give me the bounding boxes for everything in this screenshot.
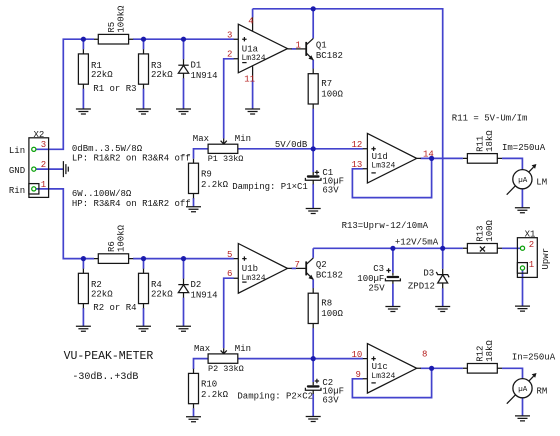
node junction U1d output xyxy=(429,156,434,161)
wire R7 bottom to 5V/0dB node xyxy=(312,109,314,149)
wire D3 bottom to ground xyxy=(442,288,444,306)
svg-text:HP: R3&R4 on R1&R2 off: HP: R3&R4 on R1&R2 off xyxy=(72,199,191,209)
wire P1 left terminal to R9 xyxy=(194,149,209,159)
svg-text:R6: R6 xyxy=(107,241,117,252)
capacitor C2 xyxy=(305,378,344,406)
node junction C3 +12V xyxy=(390,246,395,251)
svg-text:2: 2 xyxy=(227,50,232,60)
ground under R3 xyxy=(136,109,151,114)
svg-text:18kΩ: 18kΩ xyxy=(485,340,495,362)
svg-text:X2: X2 xyxy=(34,130,45,140)
svg-text:6: 6 xyxy=(227,269,232,279)
wire meter RM to ground xyxy=(522,398,524,416)
wire bottom rail from R6 to U1b pin5 xyxy=(133,258,234,260)
wire D1 top xyxy=(183,39,185,59)
ground under meter RM xyxy=(515,416,530,421)
svg-text:Lm324: Lm324 xyxy=(242,274,266,283)
wire U1a pin11 to ground xyxy=(252,80,254,109)
svg-text:Damping: P2×C2: Damping: P2×C2 xyxy=(237,391,313,401)
svg-text:U1a: U1a xyxy=(242,44,259,54)
svg-text:22kΩ: 22kΩ xyxy=(91,70,113,80)
op-amp U1a xyxy=(234,17,292,80)
wire R4 bottom to ground xyxy=(143,308,145,326)
svg-text:VU-PEAK-METER: VU-PEAK-METER xyxy=(64,350,154,363)
ground under D3 xyxy=(435,307,450,312)
ground under R9 xyxy=(186,207,201,212)
node junction top rail Q1 xyxy=(311,6,316,11)
svg-text:LM: LM xyxy=(536,177,547,187)
svg-text:RM: RM xyxy=(537,386,548,396)
svg-text:Rin: Rin xyxy=(9,186,25,196)
svg-text:Min: Min xyxy=(235,134,251,144)
node junction 5V/0dB xyxy=(311,146,316,151)
wire top rail from R5 to U1a pin3 xyxy=(133,38,234,40)
resistor R6 xyxy=(94,224,133,263)
resistor R10 xyxy=(189,369,229,409)
wire U1d pin13 feedback loop xyxy=(352,158,431,197)
ground under X1 xyxy=(515,306,530,311)
svg-text:R9: R9 xyxy=(201,169,212,179)
ground under D1 xyxy=(176,109,191,114)
node junction P2 output xyxy=(311,356,316,361)
ground under C2 xyxy=(306,417,321,422)
wire R13 to X1 pin2 xyxy=(502,247,523,249)
resistor R2 xyxy=(78,269,113,309)
svg-text:Upwr: Upwr xyxy=(541,248,551,270)
wire Rin from X2 pin1 down to bottom rail xyxy=(34,189,94,259)
wire D1 bottom to ground xyxy=(183,78,185,109)
svg-text:ZPD12: ZPD12 xyxy=(408,281,435,291)
wire R12 to meter RM xyxy=(502,368,523,379)
svg-text:R7: R7 xyxy=(321,79,332,89)
svg-text:9: 9 xyxy=(356,370,361,380)
svg-text:R2 or R4: R2 or R4 xyxy=(93,303,136,313)
wire U1c output to R12 xyxy=(421,367,463,369)
svg-text:+12V/5mA: +12V/5mA xyxy=(395,237,439,247)
wire R3 bottom to ground xyxy=(143,89,145,109)
wire C1 top xyxy=(312,149,314,172)
svg-text:Damping: P1×C1: Damping: P1×C1 xyxy=(232,182,308,192)
op-amp U1c xyxy=(363,344,421,394)
svg-text:BC182: BC182 xyxy=(316,270,343,280)
svg-text:P1 33kΩ: P1 33kΩ xyxy=(208,154,244,164)
svg-text:5V/0dB: 5V/0dB xyxy=(275,140,308,150)
node junction rail A R1 xyxy=(81,37,86,42)
wire meter LM to ground xyxy=(521,189,523,208)
resistor R8 xyxy=(308,288,343,328)
wire D2 top xyxy=(183,259,185,279)
svg-text:0dBm..3.5W/8Ω: 0dBm..3.5W/8Ω xyxy=(72,144,143,154)
svg-text:10: 10 xyxy=(352,350,363,360)
svg-text:R11 = 5V-Um/Im: R11 = 5V-Um/Im xyxy=(452,114,528,124)
wire D2 bottom to ground xyxy=(183,298,185,327)
node junction U1c output xyxy=(429,366,434,371)
node junction rail A D1 xyxy=(181,37,186,42)
wire R4 top xyxy=(143,259,145,269)
wire C2 top xyxy=(312,359,314,382)
ground under R2 xyxy=(76,326,91,331)
wire +12V rail xyxy=(313,247,443,249)
svg-text:22kΩ: 22kΩ xyxy=(91,290,113,300)
wire R3 top xyxy=(143,39,145,49)
ground under R4 xyxy=(136,326,151,331)
wire U1a output to Q1 base xyxy=(292,48,297,50)
ground at X2 pin2 xyxy=(63,161,68,177)
resistor R4 xyxy=(139,269,174,309)
wire Q1 emitter to R7 xyxy=(312,60,314,69)
svg-text:2.2kΩ: 2.2kΩ xyxy=(201,180,229,190)
svg-text:In=250uA: In=250uA xyxy=(512,352,556,362)
wire R8 bottom to P2 node xyxy=(312,328,314,359)
ground under R10 xyxy=(186,417,201,422)
svg-text:100Ω: 100Ω xyxy=(485,219,495,241)
svg-text:1: 1 xyxy=(41,180,46,190)
wire Q2 emitter to R8 xyxy=(312,280,314,289)
svg-text:Max: Max xyxy=(193,134,209,144)
wire P1 right terminal to 5V/0dB node xyxy=(238,148,313,150)
svg-text:100Ω: 100Ω xyxy=(321,309,343,319)
wire R11 to meter LM xyxy=(502,158,522,170)
wire R1 bottom to ground xyxy=(82,89,84,109)
svg-text:63V: 63V xyxy=(322,395,339,405)
svg-text:3: 3 xyxy=(227,30,232,40)
svg-text:-30dB..+3dB: -30dB..+3dB xyxy=(72,371,138,383)
transistor Q1 xyxy=(296,38,343,61)
svg-text:Q2: Q2 xyxy=(316,260,327,270)
connector X2 xyxy=(29,130,49,198)
svg-text:100kΩ: 100kΩ xyxy=(116,5,126,33)
node junction rail C R2 xyxy=(81,256,86,261)
svg-text:R5: R5 xyxy=(107,22,117,33)
diode D1 xyxy=(178,59,217,81)
svg-text:6W..100W/8Ω: 6W..100W/8Ω xyxy=(72,189,132,199)
ground under D2 xyxy=(176,326,191,331)
svg-text:100µF: 100µF xyxy=(357,274,384,284)
svg-text:8: 8 xyxy=(422,349,427,359)
svg-text:C3: C3 xyxy=(373,264,384,274)
capacitor C1 xyxy=(305,168,344,196)
svg-text:100Ω: 100Ω xyxy=(321,90,343,100)
wire C3 top xyxy=(392,248,394,273)
svg-text:5: 5 xyxy=(227,250,232,260)
wire U1d output to R11 xyxy=(421,157,463,159)
svg-text:1N914: 1N914 xyxy=(191,71,218,81)
svg-text:1: 1 xyxy=(529,260,534,270)
svg-text:13: 13 xyxy=(352,160,363,170)
svg-text:R10: R10 xyxy=(201,380,217,390)
wire R9 bottom to ground xyxy=(193,198,195,207)
wire top power rail to right edge and down xyxy=(253,9,443,249)
wire U1b pin6 to P2 wiper xyxy=(224,278,234,348)
wire D3 top xyxy=(442,248,444,269)
potentiometer P1 xyxy=(193,134,251,164)
wire C1 bottom to ground xyxy=(312,184,314,208)
wire Q2 collector riser to +12V rail xyxy=(312,248,314,258)
svg-text:R13: R13 xyxy=(476,225,486,241)
svg-text:Lin: Lin xyxy=(9,146,25,156)
svg-text:Lm324: Lm324 xyxy=(371,161,395,170)
svg-text:D1: D1 xyxy=(191,61,202,71)
svg-text:D3: D3 xyxy=(423,269,434,279)
wire P2 left terminal to R10 xyxy=(194,359,209,369)
svg-text:2: 2 xyxy=(529,240,534,250)
svg-text:U1b: U1b xyxy=(242,264,258,274)
wire node to U1c pin10 xyxy=(313,358,363,360)
meter RM xyxy=(507,373,548,404)
ground under R1 xyxy=(76,109,91,114)
wire C2 bottom to ground xyxy=(312,394,314,417)
svg-text:µA: µA xyxy=(518,177,528,185)
svg-text:4: 4 xyxy=(248,17,253,27)
wire 5V/0dB node to U1d pin12 xyxy=(313,148,363,150)
svg-text:R1 or R3: R1 or R3 xyxy=(93,84,136,94)
diode D3 zener xyxy=(408,269,449,292)
svg-text:R13=Uprw-12/10mA: R13=Uprw-12/10mA xyxy=(342,221,429,231)
wire R2 bottom to ground xyxy=(82,308,84,326)
resistor R1 xyxy=(78,49,113,89)
svg-text:22kΩ: 22kΩ xyxy=(151,290,173,300)
svg-text:GND: GND xyxy=(9,166,25,176)
node junction rail C D2 xyxy=(181,256,186,261)
svg-text:U1c: U1c xyxy=(372,362,388,372)
svg-text:P2 33kΩ: P2 33kΩ xyxy=(208,364,244,374)
potentiometer P2 xyxy=(194,344,251,374)
meter LM xyxy=(507,164,547,195)
resistor R13 xyxy=(463,219,502,253)
svg-text:22kΩ: 22kΩ xyxy=(151,70,173,80)
svg-text:63V: 63V xyxy=(322,186,339,196)
resistor R3 xyxy=(139,49,174,89)
wire P2 right terminal to U1c node xyxy=(238,358,313,360)
svg-text:11: 11 xyxy=(244,75,255,85)
svg-text:R8: R8 xyxy=(321,299,332,309)
svg-text:Min: Min xyxy=(235,344,251,354)
resistor R5 xyxy=(94,5,133,44)
wire Q1 collector riser xyxy=(312,9,314,39)
wire R1 top stub to rail xyxy=(82,39,84,49)
wire Lin from X2 pin3 up to top rail xyxy=(34,39,94,149)
wire R2 top xyxy=(82,259,84,269)
node junction D3 +12V xyxy=(440,246,445,251)
svg-text:µA: µA xyxy=(518,386,528,394)
svg-text:Lm324: Lm324 xyxy=(371,372,395,381)
svg-text:Im=250uA: Im=250uA xyxy=(502,143,546,153)
svg-text:LP: R1&R2 on R3&R4 off: LP: R1&R2 on R3&R4 off xyxy=(72,154,191,164)
transistor Q2 xyxy=(296,258,343,281)
svg-text:Q1: Q1 xyxy=(316,41,327,51)
ground under C1 xyxy=(306,209,321,214)
svg-text:D2: D2 xyxy=(191,280,202,290)
wire +12V rail to R13 xyxy=(443,247,463,249)
diode D2 xyxy=(178,279,217,301)
resistor R11 xyxy=(463,130,502,164)
svg-text:12: 12 xyxy=(352,140,363,150)
ground under U1a pin11 xyxy=(245,109,260,114)
svg-text:R12: R12 xyxy=(476,346,486,362)
svg-text:BC182: BC182 xyxy=(316,51,343,61)
ground under meter LM xyxy=(515,208,530,213)
wire U1a pin4 to top power rail xyxy=(252,9,254,18)
wire R10 bottom to ground xyxy=(193,408,195,416)
node junction rail C R4 xyxy=(141,256,146,261)
wire U1a pin2 to P1 wiper xyxy=(224,59,234,139)
wire U1c pin9 feedback loop xyxy=(352,368,431,397)
capacitor C3 xyxy=(357,264,400,294)
wire C3 bottom to ground xyxy=(392,284,394,307)
wire U1b output to Q2 base xyxy=(292,267,297,269)
svg-text:2: 2 xyxy=(41,160,46,170)
resistor R12 xyxy=(463,340,502,374)
op-amp U1b xyxy=(234,244,292,294)
svg-text:Max: Max xyxy=(194,344,210,354)
svg-text:R11: R11 xyxy=(476,136,486,152)
svg-text:3: 3 xyxy=(41,140,46,150)
svg-text:25V: 25V xyxy=(368,284,385,294)
connector X1 xyxy=(517,230,550,278)
resistor R7 xyxy=(308,69,343,109)
op-amp U1d xyxy=(363,133,421,183)
node junction rail A R3 xyxy=(141,37,146,42)
svg-text:100kΩ: 100kΩ xyxy=(116,224,126,252)
svg-text:1N914: 1N914 xyxy=(191,290,218,300)
svg-text:2.2kΩ: 2.2kΩ xyxy=(201,390,229,400)
wire X2 pin2 to gnd symbol xyxy=(34,168,63,170)
svg-text:X1: X1 xyxy=(525,230,536,240)
ground under C3 xyxy=(385,307,400,312)
svg-text:18kΩ: 18kΩ xyxy=(485,130,495,152)
wire X1 pin1 to ground xyxy=(522,268,524,306)
resistor R9 xyxy=(189,159,229,198)
svg-text:Lm324: Lm324 xyxy=(242,54,266,63)
